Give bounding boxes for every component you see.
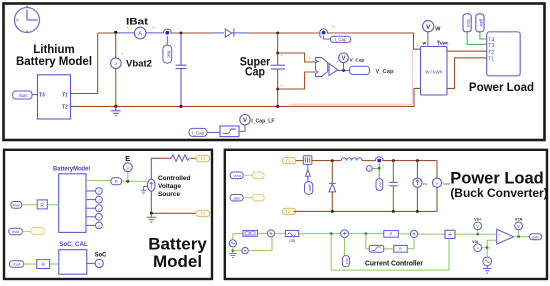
- wire ghost horizontal: [290, 103, 412, 105]
- bottom rail: [71, 88, 421, 106]
- svg-text:V: V: [476, 224, 479, 229]
- svg-text:Battery: Battery: [148, 235, 207, 254]
- svg-text:gate: gate: [308, 185, 312, 192]
- wire product to sum1: [248, 237, 272, 251]
- svg-text:T1: T1: [201, 157, 205, 161]
- gate goto tag out: [530, 234, 542, 240]
- wire sum3 to pwm: [418, 233, 445, 235]
- svg-text:125: 125: [289, 239, 295, 243]
- diode D1: [225, 29, 247, 38]
- svg-text:Ibat: Ibat: [13, 262, 21, 267]
- svg-text:+: +: [424, 18, 427, 23]
- node cap1 bottom: [179, 105, 182, 108]
- wire ghost vertical: [411, 49, 413, 104]
- wire gen bottom branch: [232, 247, 234, 253]
- wire W display to block: [427, 32, 429, 47]
- signal generator: [229, 240, 236, 247]
- wire gen up to main: [232, 234, 234, 240]
- node cap1 top: [180, 32, 183, 35]
- wire mosfet to inductor: [312, 160, 341, 162]
- svg-text:Power Load: Power Load: [450, 170, 544, 188]
- product circle: [242, 247, 248, 253]
- wire to cream tag: [22, 230, 31, 232]
- wire pwm to opamp: [455, 233, 497, 235]
- wire top rail right: [327, 33, 421, 49]
- gate goto tag (vertical): [476, 14, 484, 32]
- ground under Vbat2: [111, 106, 121, 115]
- svg-text:I_Cap: I_Cap: [334, 37, 347, 42]
- svg-text:Lithium: Lithium: [33, 44, 75, 56]
- ground under gen: [229, 253, 237, 257]
- wire Vbat2 down: [115, 69, 117, 107]
- node green: [378, 167, 381, 170]
- V3+ display: [477, 230, 479, 234]
- gate arrow: [305, 170, 310, 176]
- svg-text:V: V: [243, 118, 247, 124]
- wire sum2 to split: [349, 233, 384, 235]
- svg-text:+: +: [121, 52, 124, 57]
- svg-text:Current Controller: Current Controller: [365, 260, 423, 267]
- svg-text:>: >: [98, 261, 101, 266]
- svg-text:R: R: [41, 262, 45, 268]
- svg-text:V3+: V3+: [474, 217, 482, 222]
- node out: [517, 235, 520, 238]
- gate from tag (vertical): [305, 182, 313, 195]
- controlled voltage source CVS: [148, 179, 156, 191]
- wire diode to bottom rail: [331, 192, 333, 211]
- wire node up to V_Cap scope: [343, 63, 345, 71]
- svg-text:+: +: [416, 44, 419, 49]
- svg-text:+: +: [281, 53, 284, 58]
- svg-text:T2: T2: [488, 50, 494, 56]
- svg-text:Iout: Iout: [379, 182, 383, 188]
- wire gain to V_Cap tag: [338, 69, 350, 71]
- Ibat from tag 3: [9, 261, 23, 268]
- wire block to R tag: [86, 180, 111, 182]
- node bracket bottom: [276, 88, 279, 91]
- I_Cap_LF display: [240, 115, 250, 125]
- wire Ibat3 to R2: [24, 263, 37, 265]
- V_Cap goto tag: [350, 66, 370, 74]
- Vout measure circle: [436, 161, 438, 179]
- svg-text:V: V: [517, 224, 520, 229]
- inductor L1: [341, 158, 362, 161]
- node split: [365, 232, 368, 235]
- wire purple stub ammeter to sensor: [146, 32, 164, 34]
- R block 2: [37, 260, 50, 269]
- svg-text:T2: T2: [62, 105, 68, 111]
- BatteryModel block: [59, 174, 86, 233]
- supercap C2: [271, 33, 286, 106]
- node dots bottom rail: [331, 210, 334, 213]
- plus marks top panel: [127, 18, 428, 88]
- wire T2: [71, 105, 98, 107]
- node CVS ground: [150, 212, 153, 215]
- sum3 circle: [410, 230, 417, 237]
- wire sensor to cap node: [170, 32, 213, 34]
- R rate block: [37, 200, 47, 209]
- svg-text:Power Load: Power Load: [469, 82, 534, 94]
- dIdt display circle: [372, 167, 379, 169]
- svg-text:+: +: [152, 25, 155, 30]
- block 125: [285, 230, 298, 236]
- filter block: [220, 126, 239, 137]
- wire sum2 down to tag: [344, 238, 346, 256]
- svg-text:Model: Model: [153, 252, 202, 271]
- Ibat goto tag (vertical): [163, 45, 172, 63]
- svg-text:Voltage: Voltage: [158, 183, 181, 190]
- svg-text:SoC: SoC: [95, 251, 107, 258]
- svg-text:R: R: [115, 179, 118, 184]
- sum2 circle: [341, 230, 349, 238]
- wire Vout to T3: [467, 32, 487, 45]
- current sensor node: [163, 29, 171, 33]
- svg-text:Vout: Vout: [466, 19, 471, 28]
- wire R2 to sum3: [407, 238, 414, 249]
- wire Ibat to R: [22, 204, 38, 206]
- SoC_CAL block: [59, 250, 87, 275]
- node source top: [416, 159, 419, 162]
- I_Cap current sensor: [320, 33, 322, 38]
- pwm block: [445, 230, 455, 238]
- Iout goto tag (vertical): [376, 179, 383, 191]
- wire R to block: [47, 204, 58, 206]
- T2 port: [196, 210, 210, 216]
- wire tag to T3: [32, 94, 38, 96]
- svg-text:+: +: [127, 25, 130, 30]
- wire R tag to CVS: [122, 180, 148, 182]
- svg-text:V_Cap: V_Cap: [350, 58, 365, 64]
- svg-text:>: >: [368, 167, 370, 171]
- R goto tag: [111, 178, 122, 185]
- Vout goto tag (vertical): [463, 14, 471, 32]
- cream oval tag: [31, 227, 45, 234]
- svg-text:T1: T1: [62, 92, 68, 98]
- ground under sine: [483, 266, 491, 274]
- svg-text:T1: T1: [488, 56, 494, 62]
- SoC display circle: [95, 259, 103, 267]
- svg-text:eq: eq: [423, 182, 427, 186]
- wire diode to supercap node: [247, 32, 321, 34]
- feedback wire: [331, 234, 449, 271]
- wire V3i to opamp lower input: [482, 240, 497, 248]
- V3i display: [474, 244, 482, 252]
- svg-text:Ibat: Ibat: [19, 93, 27, 98]
- wire filter to display: [239, 125, 245, 131]
- wire block to sum1: [257, 232, 267, 234]
- bottom rail buck: [294, 210, 437, 212]
- measurement circles column: [86, 188, 102, 229]
- wire P to sum3: [398, 233, 410, 235]
- svg-text:V2R: V2R: [515, 217, 523, 222]
- Ibat from tag: [11, 202, 22, 209]
- node feedback: [330, 232, 333, 235]
- diode D2 (freewheel): [329, 183, 336, 192]
- wire E stub: [127, 172, 129, 182]
- W/kWh block: [421, 47, 448, 96]
- node bracket top: [276, 52, 279, 55]
- svg-text:Battery Model: Battery Model: [16, 56, 92, 68]
- wire W/kWh to T2: [447, 50, 487, 52]
- svg-text:E: E: [125, 154, 130, 163]
- node V_Cap: [342, 69, 345, 72]
- svg-text:T2: T2: [286, 210, 290, 214]
- T1 port buck: [282, 157, 296, 163]
- svg-text:Ibat: Ibat: [13, 203, 21, 208]
- node Vbat2 bottom: [114, 105, 117, 108]
- svg-text:V: V: [341, 56, 345, 62]
- svg-text:R: R: [40, 203, 44, 209]
- battery subsystem block: [38, 75, 71, 119]
- sequence block: [243, 230, 258, 236]
- W display circle: [423, 21, 434, 32]
- wire top rail left: [98, 32, 116, 34]
- I_Cap from tag (filter row): [189, 128, 207, 136]
- panel border (top system): [4, 4, 545, 141]
- svg-text:V: V: [435, 181, 438, 186]
- resistor R_int: [171, 155, 189, 162]
- clock icon: [15, 6, 40, 33]
- wire sensor to Ibat goto tag: [166, 36, 168, 45]
- svg-text:Vout: Vout: [443, 182, 450, 186]
- svg-text:W: W: [435, 27, 441, 33]
- svg-text:>: >: [114, 62, 117, 68]
- T2 port buck: [282, 208, 296, 214]
- svg-text:gate: gate: [479, 19, 484, 28]
- node diode top: [331, 159, 334, 162]
- wire R2 to SoC_CAL: [50, 263, 59, 265]
- svg-text:Ibat: Ibat: [167, 51, 172, 59]
- V2R display: [518, 230, 520, 237]
- wire sum1 to 125 block: [274, 232, 285, 234]
- svg-text:T3: T3: [488, 43, 494, 49]
- R block P: [384, 231, 399, 238]
- wire bracket top to diff amp: [278, 53, 316, 62]
- wire sensor to cap node: [382, 160, 437, 162]
- svg-text:Vout: Vout: [233, 174, 240, 178]
- sum1 circle: [267, 230, 274, 237]
- mosfet Q1: [303, 156, 312, 165]
- node V3+: [476, 233, 479, 236]
- node junction at Vbat2 top: [114, 31, 117, 34]
- node under E: [126, 180, 129, 183]
- svg-text:÷: ÷: [448, 230, 452, 239]
- wire SoC_CAL to SoC display: [87, 262, 95, 264]
- opamp comparator: [497, 229, 514, 244]
- wire resistor to T1: [190, 157, 196, 159]
- wire sensor to I_Cap tag: [324, 36, 331, 39]
- Vbat2 measurement: [115, 33, 117, 58]
- svg-text:Cap: Cap: [245, 67, 265, 79]
- svg-text:V: V: [126, 165, 129, 170]
- node sine: [486, 246, 489, 249]
- saturation block: [369, 245, 384, 252]
- svg-text:SoC_CAL: SoC_CAL: [59, 241, 88, 248]
- E display circle: [123, 163, 132, 172]
- svg-text:+: +: [332, 25, 335, 30]
- panel border (battery model): [4, 150, 212, 279]
- R block I: [394, 245, 407, 252]
- node supercap bottom: [276, 105, 279, 108]
- node cap top: [392, 159, 395, 162]
- svg-text:V_Cap: V_Cap: [376, 69, 395, 75]
- capacitor C3: [389, 161, 398, 212]
- capacitor C1: [176, 33, 187, 106]
- wire 125 to sum2: [299, 233, 341, 235]
- I_Cap goto tag: [330, 36, 351, 42]
- svg-text:Iout: Iout: [345, 258, 349, 264]
- Iout from tag (vertical): [342, 256, 349, 267]
- svg-text:T3: T3: [39, 92, 45, 98]
- load source circle: [416, 161, 418, 179]
- op-amp diff block U1: [316, 58, 328, 77]
- Ibat from-tag: [13, 91, 32, 99]
- wire mosfet gate down: [307, 164, 309, 169]
- svg-text:+: +: [281, 83, 284, 88]
- wire CVS top to resistor: [151, 158, 171, 179]
- lower branch: [366, 234, 369, 249]
- ground under CVS node: [147, 213, 157, 222]
- svg-text:I_Cap_LF: I_Cap_LF: [251, 119, 274, 125]
- V_Cap display circle: [339, 53, 349, 63]
- svg-text:gate: gate: [234, 196, 241, 200]
- svg-text:A: A: [138, 32, 142, 38]
- svg-text:(Buck Converter): (Buck Converter): [450, 186, 547, 200]
- panel border (power load buck converter): [225, 150, 547, 279]
- wire T1 to W/kWh bottom: [447, 58, 487, 89]
- svg-text:IBat: IBat: [126, 16, 148, 26]
- node supercap top: [276, 32, 279, 35]
- T1 port: [196, 155, 210, 161]
- wire tag to filter: [207, 131, 220, 133]
- wire sat to R2: [384, 248, 394, 250]
- sine source: [486, 248, 488, 257]
- svg-text:BatteryModel: BatteryModel: [53, 166, 90, 173]
- svg-text:V: V: [426, 24, 431, 31]
- wire sensor down: [378, 164, 380, 179]
- svg-text:R: R: [389, 232, 392, 237]
- Ibat goto tag 2: [9, 228, 23, 235]
- wire gate to T4: [480, 32, 487, 39]
- small ground left of CVS: [141, 187, 148, 195]
- wire CVS bottom to T2: [151, 191, 196, 213]
- svg-text:Vbat2: Vbat2: [126, 59, 152, 69]
- svg-text:Controlled: Controlled: [158, 175, 191, 182]
- wire inductor to sensor: [362, 160, 376, 162]
- svg-text:+: +: [308, 56, 311, 61]
- wire purple stub to ammeter: [116, 32, 135, 34]
- svg-text:W / kWh: W / kWh: [425, 70, 442, 75]
- svg-text:kWh: kWh: [440, 41, 449, 46]
- svg-text:T1: T1: [286, 159, 290, 163]
- Power Load block: [487, 32, 521, 76]
- svg-text:Source: Source: [158, 191, 180, 198]
- svg-text:R: R: [399, 247, 402, 252]
- svg-text:W: W: [423, 41, 427, 46]
- svg-text:V3i: V3i: [472, 239, 478, 244]
- wire opamp out: [514, 236, 530, 238]
- wire node to diode: [331, 161, 333, 184]
- svg-text:Ibat: Ibat: [12, 229, 20, 234]
- gate from tag pair: [230, 194, 243, 201]
- wire T1 to mosfet: [296, 160, 304, 162]
- svg-text:T2: T2: [201, 212, 205, 216]
- svg-text:gate: gate: [532, 235, 539, 239]
- ammeter A circle: [134, 27, 146, 39]
- gain triangle: [329, 64, 338, 76]
- wire T1 up to top rail: [71, 33, 98, 94]
- wire bracket bottom to diff amp: [278, 72, 316, 89]
- current sensor buck: [375, 157, 383, 161]
- svg-text:I_Cap: I_Cap: [192, 130, 205, 135]
- Vout from tag pair: [230, 172, 243, 179]
